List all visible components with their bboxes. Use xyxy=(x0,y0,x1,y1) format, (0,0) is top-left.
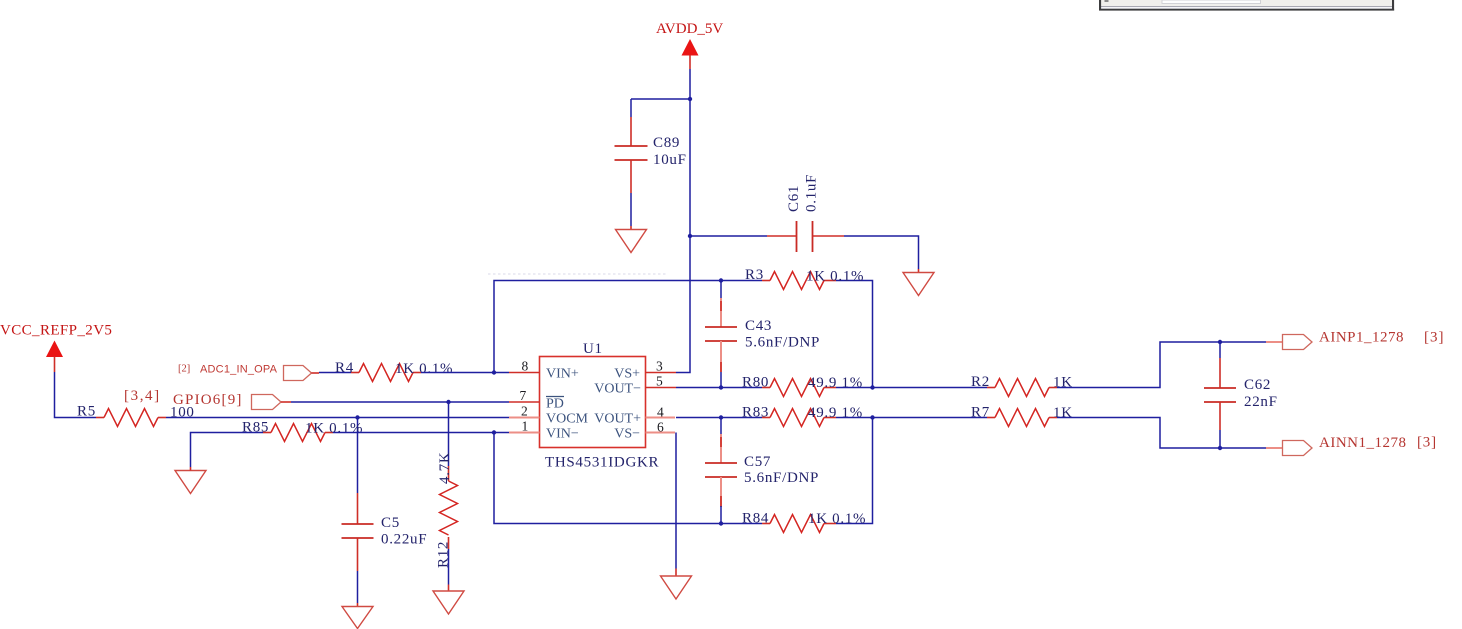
resistor R80 xyxy=(742,375,863,397)
svg-text:C43: C43 xyxy=(745,318,772,334)
svg-text:1K: 1K xyxy=(1053,405,1073,421)
pin 8 stub xyxy=(509,372,540,374)
resistor R3 xyxy=(745,267,864,290)
pin 4 stub xyxy=(646,417,676,419)
capacitor C61 0.1uF xyxy=(767,174,844,252)
svg-text:10uF: 10uF xyxy=(653,152,687,168)
resistor R85 xyxy=(242,420,363,442)
svg-text:1K 0.1%: 1K 0.1% xyxy=(808,511,866,527)
svg-text:2: 2 xyxy=(521,404,528,419)
pin 5 stub xyxy=(646,387,677,389)
svg-text:VIN+: VIN+ xyxy=(546,367,579,382)
wire R2 to AINP port xyxy=(1057,342,1266,388)
svg-text:1K 0.1%: 1K 0.1% xyxy=(305,421,363,437)
svg-text:22nF: 22nF xyxy=(1244,394,1278,410)
resistor R5 xyxy=(77,404,195,427)
capacitor C43 xyxy=(705,281,820,388)
wire VOUT+ row (pin 4) xyxy=(676,417,762,419)
svg-text:3: 3 xyxy=(656,359,663,374)
pin 1 stub xyxy=(509,432,540,434)
wire VIN- feedback bottom line xyxy=(494,433,762,524)
svg-text:C89: C89 xyxy=(653,135,680,151)
pin 7 stub xyxy=(509,401,540,403)
port AINN1_1278 xyxy=(1283,435,1437,456)
svg-text:R84: R84 xyxy=(742,511,769,527)
ground below VS- xyxy=(661,576,692,599)
capacitor C89 xyxy=(615,99,687,230)
wire AVDD vertical to VS+ pin 3 xyxy=(676,69,690,373)
wire VOUT- row (pin 5) xyxy=(676,387,762,389)
svg-text:R85: R85 xyxy=(242,420,269,436)
wire R80 to R2 xyxy=(836,387,987,389)
wire faint ghost line xyxy=(488,273,668,275)
svg-text:4.7K: 4.7K xyxy=(437,452,453,484)
pin 2 stub xyxy=(509,417,540,419)
wire R85 to VIN- pin 1 xyxy=(333,432,509,434)
wire ADC1 to R4 xyxy=(319,372,351,374)
ground left of R85 xyxy=(175,471,206,494)
svg-text:VIN−: VIN− xyxy=(546,427,579,442)
power flag VCC_REFP_2V5 xyxy=(0,323,112,373)
wire C61 branch from AVDD vertical xyxy=(688,234,692,238)
svg-text:5: 5 xyxy=(656,374,663,389)
svg-text:AINP1_1278: AINP1_1278 xyxy=(1319,330,1404,346)
svg-text:VCC_REFP_2V5: VCC_REFP_2V5 xyxy=(0,323,112,339)
svg-text:49.9 1%: 49.9 1% xyxy=(808,375,863,391)
pin labels xyxy=(546,367,641,442)
svg-text:0.1uF: 0.1uF xyxy=(804,174,820,212)
wire C89 top branch xyxy=(631,98,690,100)
port AINP1_1278 xyxy=(1283,330,1445,350)
svg-text:[3,4]: [3,4] xyxy=(124,388,161,404)
svg-text:C57: C57 xyxy=(744,454,771,470)
svg-text:VOCM: VOCM xyxy=(546,412,589,427)
svg-text:PD: PD xyxy=(546,397,564,412)
svg-text:49.9 1%: 49.9 1% xyxy=(808,405,863,421)
svg-text:VS+: VS+ xyxy=(614,367,640,382)
port ADC1_IN_OPA xyxy=(178,364,319,381)
capacitor C62 xyxy=(1204,342,1278,448)
svg-text:[3]: [3] xyxy=(1424,330,1445,346)
resistor R2 xyxy=(971,374,1073,397)
svg-text:R5: R5 xyxy=(77,404,96,420)
svg-text:R4: R4 xyxy=(335,360,354,376)
pin 6 stub xyxy=(646,432,676,434)
svg-text:[3]: [3] xyxy=(1417,435,1437,451)
svg-text:U1: U1 xyxy=(583,341,603,357)
wire C61 to ground xyxy=(844,236,919,269)
resistor R84 xyxy=(742,511,866,533)
svg-text:7: 7 xyxy=(520,388,527,403)
svg-text:6: 6 xyxy=(657,420,664,435)
ground below R12 xyxy=(433,591,464,614)
node feedback/C43 junction xyxy=(719,278,723,282)
node AVDD/C89 junction xyxy=(688,97,692,101)
port GPIO6[9] xyxy=(173,392,291,410)
pin numbers xyxy=(520,359,665,435)
svg-text:5.6nF/DNP: 5.6nF/DNP xyxy=(745,335,820,351)
svg-text:R2: R2 xyxy=(971,374,990,390)
wire R7 to AINN port xyxy=(1057,418,1266,449)
capacitor C5 (on VOCM) xyxy=(342,418,428,607)
op-amp U1 THS4531IDGKR xyxy=(540,341,660,471)
svg-text:R80: R80 xyxy=(742,375,769,391)
svg-text:AINN1_1278: AINN1_1278 xyxy=(1319,435,1407,451)
svg-text:AVDD_5V: AVDD_5V xyxy=(656,21,723,37)
capacitor C57 xyxy=(705,418,819,524)
ground below C89 xyxy=(616,230,647,253)
resistor R12 (pulldown on PD) xyxy=(436,402,458,591)
ground right of C61 xyxy=(903,273,934,296)
resistor R83 xyxy=(742,405,863,427)
svg-text:R83: R83 xyxy=(742,405,769,421)
svg-text:GPIO6[9]: GPIO6[9] xyxy=(173,392,243,408)
ground below C5 xyxy=(342,607,373,629)
wire R83 to R7 xyxy=(836,417,987,419)
svg-text:[2]: [2] xyxy=(178,364,190,375)
svg-text:1K 0.1%: 1K 0.1% xyxy=(806,269,864,285)
svg-text:R3: R3 xyxy=(745,267,764,283)
pin 3 stub xyxy=(646,372,677,374)
svg-text:R7: R7 xyxy=(971,405,990,421)
svg-text:1: 1 xyxy=(522,419,529,434)
svg-text:C5: C5 xyxy=(381,515,400,531)
wire GPIO6 to PD pin 7 xyxy=(291,401,509,403)
svg-text:4: 4 xyxy=(657,405,664,420)
wire R4 to pin 8 xyxy=(421,372,509,374)
wire VCC to R5 xyxy=(55,372,97,418)
resistor R7 xyxy=(971,405,1073,427)
wire VS- pin 6 to ground xyxy=(675,433,677,569)
wire R5 to VOCM pin 2 xyxy=(166,417,509,419)
svg-text:5.6nF/DNP: 5.6nF/DNP xyxy=(744,470,819,486)
svg-text:THS4531IDGKR: THS4531IDGKR xyxy=(545,455,659,471)
svg-text:C62: C62 xyxy=(1244,377,1271,393)
svg-text:8: 8 xyxy=(522,359,529,374)
svg-text:0.22uF: 0.22uF xyxy=(381,532,427,548)
svg-text:VOUT−: VOUT− xyxy=(594,382,641,397)
svg-text:ADC1_IN_OPA: ADC1_IN_OPA xyxy=(200,364,278,376)
node pin8/feedback junction xyxy=(492,370,496,374)
window fragment background (top-right UI remnant) xyxy=(1099,0,1394,11)
wire ground to R85 xyxy=(191,433,264,468)
power flag AVDD_5V xyxy=(656,21,723,69)
resistor R4 xyxy=(335,360,453,382)
svg-text:VOUT+: VOUT+ xyxy=(594,412,641,427)
wire VIN+ feedback top line xyxy=(494,281,762,373)
svg-text:C61: C61 xyxy=(786,185,802,212)
svg-text:1K 0.1%: 1K 0.1% xyxy=(395,361,453,377)
svg-text:VS−: VS− xyxy=(614,427,640,442)
svg-text:R12: R12 xyxy=(436,541,452,568)
